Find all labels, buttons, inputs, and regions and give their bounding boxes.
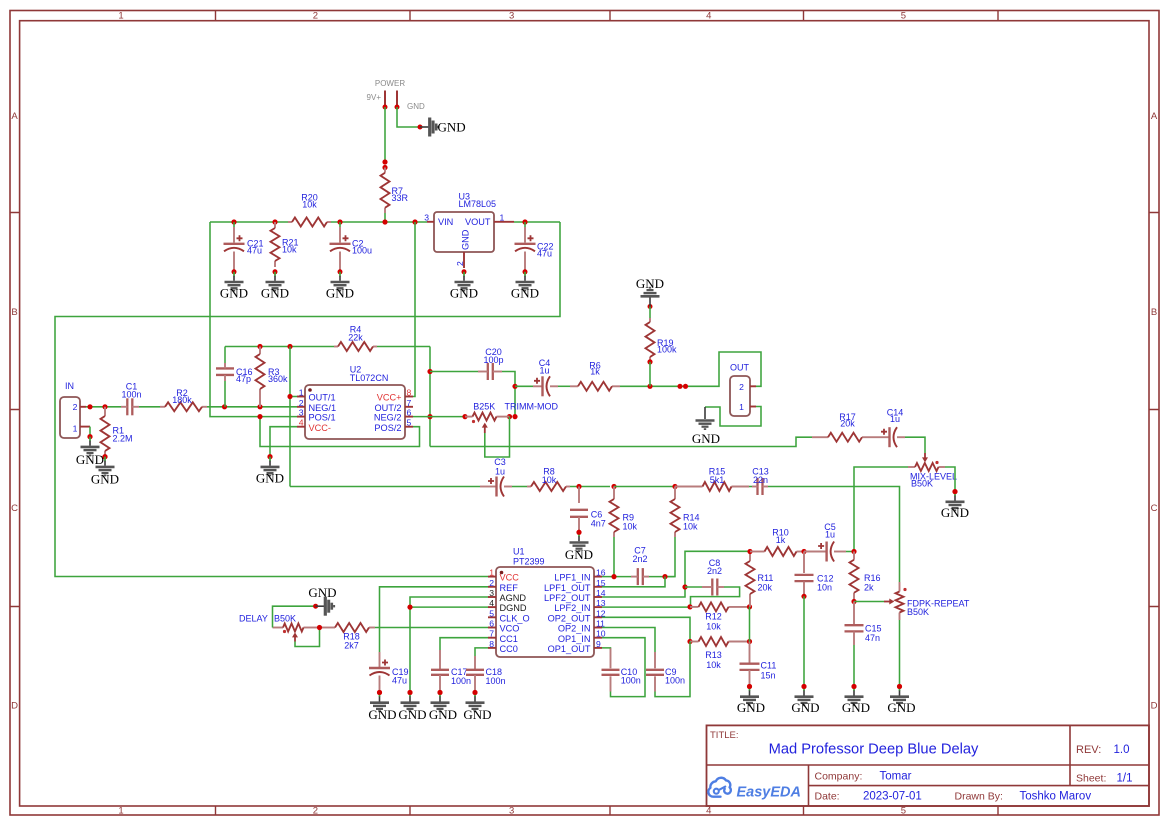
svg-text:2023-07-01: 2023-07-01 (863, 791, 922, 803)
wire LPF2_OUT run (602, 551, 750, 597)
svg-text:OP2_OUT: OP2_OUT (548, 613, 591, 623)
junction C12 gnd (801, 684, 806, 689)
U1 pin 13 (LPF2_IN) (594, 606, 602, 608)
wire C13 to FDPK top (768, 487, 900, 583)
svg-text:3: 3 (509, 806, 514, 817)
wire R19 top wire (649, 307, 651, 319)
ground GND under C21 (220, 269, 248, 300)
svg-text:5: 5 (489, 608, 494, 618)
svg-text:GND: GND (407, 102, 425, 111)
U1 pin 12 (OP2_OUT) (594, 616, 602, 618)
wire LPF2_IN row (602, 606, 690, 608)
svg-text:2: 2 (313, 806, 318, 817)
svg-text:9: 9 (596, 639, 601, 649)
junction C16 bottom node (222, 404, 227, 409)
svg-text:GND: GND (791, 700, 819, 715)
wire C3 to R8 (512, 486, 527, 488)
svg-text:GND: GND (326, 286, 354, 301)
junction C4 left node (512, 384, 517, 389)
svg-text:3: 3 (489, 588, 494, 598)
ground GND under U3 (450, 269, 478, 300)
wire Vref net (210, 222, 297, 417)
svg-text:POWER: POWER (375, 79, 405, 88)
resistor R8 (527, 467, 570, 492)
capacitor C15 (845, 624, 882, 644)
svg-text:7: 7 (489, 629, 494, 639)
svg-text:2.2M: 2.2M (113, 434, 133, 444)
svg-text:180k: 180k (172, 395, 192, 405)
wire CC0 run (475, 648, 488, 656)
svg-text:GND: GND (565, 547, 593, 562)
junction in b (102, 404, 107, 409)
wire POWER GND to ground (397, 107, 419, 127)
U3 pin 1 (494, 221, 514, 223)
svg-text:VOUT: VOUT (465, 217, 491, 227)
junction OUT/1 riser top (287, 344, 292, 349)
wire OP1_IN loop (602, 638, 645, 697)
svg-text:GND: GND (438, 120, 466, 135)
capacitor C21 (polarized) (224, 235, 264, 255)
junction C15 gnd (851, 684, 856, 689)
ground GND near DELAY (308, 585, 336, 616)
wire LPF1_OUT jog (602, 577, 665, 587)
svg-text:NEG/1: NEG/1 (309, 403, 337, 413)
capacitor C9 (646, 667, 685, 686)
svg-text:C15: C15 (865, 624, 882, 634)
svg-text:15n: 15n (761, 671, 776, 681)
wire R11-R12 to R13 link (749, 607, 751, 642)
wire R7 to power bus (384, 213, 386, 222)
svg-text:20k: 20k (840, 419, 855, 429)
U2 pin 5 (POS/2) (405, 426, 413, 428)
svg-text:Tomar: Tomar (880, 771, 912, 783)
U2 pin 1 (OUT/1) (297, 396, 305, 398)
wire C20 right / C4 node (502, 372, 515, 417)
capacitor C2 (polarized) (330, 235, 373, 255)
junction C22 top (522, 219, 527, 224)
svg-text:CC1: CC1 (500, 634, 518, 644)
wire VCC- to ground (270, 427, 297, 456)
svg-text:A: A (11, 111, 18, 122)
svg-text:Mad Professor Deep Blue Delay: Mad Professor Deep Blue Delay (769, 742, 979, 758)
wire R19 to output row (649, 362, 651, 386)
capacitor C19 (polarized) (369, 660, 409, 686)
junction B25K left (462, 414, 467, 419)
svg-text:22k: 22k (348, 333, 363, 343)
capacitor C22 (polarized) (515, 235, 554, 258)
junction R19 lower (647, 359, 652, 364)
junction R16 bottom node (851, 599, 856, 604)
svg-text:VCO: VCO (500, 624, 520, 634)
U1 pin 2 (REF) (488, 586, 496, 588)
junction MIX gnd (952, 489, 957, 494)
ground GND under R1 (91, 454, 119, 486)
svg-text:100n: 100n (121, 390, 141, 400)
wire R4 to NEG/2 riser (377, 346, 430, 348)
svg-text:22n: 22n (753, 475, 768, 485)
wire 9V+ down to R7 (384, 107, 386, 163)
junction bus R7 (382, 219, 387, 224)
U1 pin 6 (VCO) (488, 627, 496, 629)
capacitor C4 (polarized) (534, 358, 550, 396)
wire R2 to U2 NEG/1 (207, 406, 297, 408)
svg-text:47n: 47n (865, 633, 880, 643)
svg-text:C: C (11, 503, 18, 514)
junction B25K right node b (512, 414, 517, 419)
svg-text:TRIMM-MOD: TRIMM-MOD (505, 402, 559, 412)
junction R13 left node (687, 639, 692, 644)
svg-text:LPF2_IN: LPF2_IN (554, 603, 590, 613)
U1 pin 15 (LPF1_OUT) (594, 586, 602, 588)
junction AGND-DGND join (407, 605, 412, 610)
svg-text:1u: 1u (890, 414, 900, 424)
resistor R21 (271, 222, 299, 267)
svg-text:1u: 1u (495, 467, 505, 477)
wire input row IN to C1 (86, 406, 121, 408)
junction C8 left node (682, 584, 687, 589)
wire C8 right jog (691, 587, 740, 606)
svg-text:5: 5 (901, 806, 906, 817)
svg-text:10k: 10k (706, 660, 721, 670)
junction pin13 node (687, 604, 692, 609)
svg-text:OP1_IN: OP1_IN (558, 634, 591, 644)
wire C21 top lead (233, 222, 235, 227)
svg-text:GND: GND (636, 276, 664, 291)
capacitor C6 (570, 510, 606, 529)
U2 pin 6 (NEG/2) (405, 416, 413, 418)
svg-text:B: B (11, 307, 17, 318)
svg-text:6: 6 (489, 619, 494, 629)
junction C19 gnd (377, 690, 382, 695)
svg-text:OUT: OUT (730, 363, 750, 373)
svg-text:100k: 100k (657, 345, 677, 355)
wire feedback top row (225, 346, 334, 348)
ground GND under MIX (941, 492, 969, 520)
ground GND under C19 (368, 693, 396, 723)
svg-text:4: 4 (299, 418, 304, 428)
capacitor C18 (466, 667, 506, 686)
svg-text:2: 2 (739, 382, 744, 392)
svg-text:10k: 10k (706, 622, 721, 632)
resistor R7 (381, 168, 409, 214)
wire R16 to FDPK wiper (854, 601, 884, 603)
svg-text:33R: 33R (392, 193, 409, 203)
svg-text:1: 1 (73, 424, 78, 434)
svg-text:POS/1: POS/1 (309, 413, 336, 423)
junction C20 left node (427, 369, 432, 374)
junction C6 node (576, 484, 581, 489)
svg-text:GND: GND (511, 286, 539, 301)
wire DELAY left to ground (273, 606, 316, 627)
svg-text:100u: 100u (352, 246, 372, 256)
svg-text:100p: 100p (483, 355, 503, 365)
svg-text:47u: 47u (537, 249, 552, 259)
svg-text:10k: 10k (282, 245, 297, 255)
junction IN gnd (87, 434, 92, 439)
svg-text:OUT/2: OUT/2 (374, 403, 401, 413)
svg-text:2: 2 (73, 402, 78, 412)
junction OUT/1 pin (287, 394, 292, 399)
wire R9 to LPF1_IN (613, 537, 615, 577)
wire C20 left wire (430, 371, 478, 373)
svg-text:U1: U1 (513, 547, 525, 557)
svg-text:GND: GND (842, 700, 870, 715)
svg-text:1: 1 (739, 402, 744, 412)
svg-text:VCC: VCC (500, 573, 520, 583)
ground GND under C22 (511, 269, 539, 300)
junction C6 bottom (576, 530, 581, 535)
wire NEG/2 to B25K (413, 416, 465, 418)
U3 pin 2 (463, 252, 465, 268)
svg-text:GND: GND (261, 286, 289, 301)
wire VCO wire (375, 627, 488, 629)
svg-text:4: 4 (706, 806, 711, 817)
junction VCC- gnd (267, 454, 272, 459)
resistor R3 (256, 347, 289, 407)
svg-text:Company:: Company: (815, 771, 863, 783)
svg-text:10k: 10k (683, 522, 698, 532)
wire OP1_OUT link (602, 647, 611, 649)
wire FDPK bottom to ground (899, 620, 901, 686)
svg-text:PT2399: PT2399 (513, 557, 545, 567)
title block (707, 725, 1150, 806)
svg-text:2: 2 (489, 578, 494, 588)
svg-text:47u: 47u (392, 676, 407, 686)
svg-text:47p: 47p (236, 374, 251, 384)
wire C16 top lead wire (224, 347, 226, 364)
svg-text:7: 7 (407, 398, 412, 408)
ground GND under C15 (842, 687, 870, 716)
ground GND under U2 (256, 454, 284, 485)
svg-text:8: 8 (489, 639, 494, 649)
svg-text:R12: R12 (705, 612, 722, 622)
svg-text:R11: R11 (758, 573, 774, 583)
junction NEG/2 node (427, 414, 432, 419)
capacitor C11 (740, 661, 777, 681)
wire MIX right to ground (945, 467, 955, 491)
resistor R11 (746, 552, 774, 607)
junction C18 gnd (472, 690, 477, 695)
svg-text:GND: GND (308, 585, 336, 600)
potentiometer DELAY B50K (239, 614, 320, 642)
svg-text:1: 1 (489, 568, 494, 578)
junction C5 left node (801, 549, 806, 554)
U1 pin 11 (OP2_IN) (594, 627, 602, 629)
U2 pin 2 (NEG/1) (297, 406, 305, 408)
svg-text:LPF1_OUT: LPF1_OUT (544, 583, 591, 593)
wire OP2_IN link (602, 628, 655, 653)
svg-text:1u: 1u (825, 530, 835, 540)
U1 pin 4 (DGND) (488, 606, 496, 608)
ground GND under C2 (326, 269, 354, 300)
resistor R6 (570, 361, 620, 391)
capacitor C16 (216, 367, 253, 384)
svg-text:4: 4 (489, 598, 494, 608)
svg-text:C11: C11 (761, 661, 777, 671)
svg-text:3: 3 (509, 11, 514, 22)
svg-text:R13: R13 (705, 650, 722, 660)
svg-text:4: 4 (706, 11, 711, 22)
U1 pin 1 (VCC) (488, 576, 496, 578)
junction R1 bottom (102, 454, 107, 459)
wire REF to C19 (380, 587, 489, 652)
svg-text:100n: 100n (621, 676, 641, 686)
wire NEG/2 to R17 run (430, 437, 812, 446)
svg-text:LPF2_OUT: LPF2_OUT (544, 593, 591, 603)
wire OUT/1 pin link (290, 396, 297, 398)
svg-text:D: D (1151, 701, 1158, 712)
wire DELAY wiper loop (295, 628, 320, 647)
capacitor C17 (431, 667, 471, 686)
wire MIX left to C5 node (854, 467, 908, 552)
svg-text:5: 5 (407, 418, 412, 428)
svg-text:100n: 100n (486, 676, 506, 686)
svg-text:2n2: 2n2 (707, 566, 722, 576)
resistor R15 (675, 467, 749, 492)
svg-text:REV:: REV: (1076, 744, 1101, 756)
svg-text:3: 3 (424, 213, 429, 223)
capacitor C13 (752, 467, 769, 496)
resistor R13 (690, 637, 749, 670)
U1 pin 3 (AGND) (488, 596, 496, 598)
resistor R16 (850, 552, 881, 602)
wire OP2_OUT run (602, 617, 690, 641)
svg-text:B25K: B25K (473, 402, 495, 412)
resistor R10 (750, 528, 804, 557)
op-amp U2 TL072CN (297, 365, 413, 440)
junction pin16 end node (662, 574, 667, 579)
svg-text:REF: REF (500, 583, 519, 593)
svg-text:Toshko Marov: Toshko Marov (1020, 791, 1092, 803)
U1 pin 16 (LPF1_IN) (594, 576, 602, 578)
capacitor C10 (602, 667, 641, 686)
potentiometer MIX-LEVEL B50K (908, 453, 957, 489)
svg-text:2n2: 2n2 (632, 554, 647, 564)
junction 9V wire end (382, 159, 387, 164)
svg-text:5k1: 5k1 (710, 475, 725, 485)
svg-text:B50K: B50K (911, 479, 933, 489)
wire LPF1_IN row (602, 576, 631, 578)
capacitor C7 (632, 546, 647, 586)
svg-text:NEG/2: NEG/2 (374, 413, 402, 423)
capacitor C1 (121, 382, 141, 416)
svg-text:9V+: 9V+ (367, 93, 382, 102)
wire R9 to R14 node (614, 486, 675, 488)
wire C4 to R6 (558, 385, 570, 387)
potentiometer FDPK-REPEAT B50K (884, 582, 970, 620)
junction bus C2 (337, 219, 342, 224)
wire OUT1 to C3 (290, 486, 480, 488)
resistor R14 (671, 487, 700, 538)
wire C22 top lead (524, 222, 526, 227)
wire C15 to ground (853, 645, 855, 686)
svg-text:1u: 1u (539, 366, 549, 376)
resistor R9 (610, 487, 638, 538)
resistor R17 (812, 412, 878, 442)
capacitor C8 (707, 558, 722, 596)
EasyEDA logo (708, 778, 801, 801)
wire VCC+ to U2 pin8 (413, 222, 415, 397)
svg-text:GND: GND (692, 431, 720, 446)
svg-text:DELAY: DELAY (239, 614, 268, 624)
OUT pin 2 stub (750, 385, 756, 387)
ground GND under C11 (737, 687, 765, 716)
svg-text:10k: 10k (542, 475, 557, 485)
svg-text:EasyEDA: EasyEDA (737, 785, 801, 801)
svg-text:D: D (11, 701, 18, 712)
svg-text:VCC+: VCC+ (377, 393, 402, 403)
svg-text:IN: IN (65, 381, 74, 391)
junction in a (87, 404, 92, 409)
svg-text:2: 2 (455, 261, 465, 266)
wire B25K wiper loop (485, 417, 510, 457)
junction out row b (683, 384, 688, 389)
U1 pin 10 (OP1_IN) (594, 637, 602, 639)
svg-text:AGND: AGND (500, 593, 527, 603)
IN pin 1 stub (80, 426, 90, 428)
junction B25K right node a (507, 414, 512, 419)
IN pin 2 stub (80, 406, 86, 408)
junction Vref/POS1 branch (257, 414, 262, 419)
wire OUT pin1 to ground (705, 407, 761, 427)
junction R13 right node (747, 639, 752, 644)
svg-text:CLK_O: CLK_O (500, 613, 530, 623)
wire R6 to OUT jog (620, 352, 761, 386)
wire NEG/2 riser (429, 347, 431, 447)
svg-text:10k: 10k (623, 522, 638, 532)
svg-text:VIN: VIN (438, 217, 453, 227)
svg-text:TITLE:: TITLE: (710, 730, 739, 741)
resistor R19 (646, 318, 678, 361)
wire DGND run (410, 606, 488, 608)
svg-text:Date:: Date: (815, 791, 840, 803)
svg-text:GND: GND (463, 707, 491, 722)
U1 pin 8 (CC0) (488, 647, 496, 649)
connector IN (60, 381, 90, 438)
svg-text:8: 8 (407, 388, 412, 398)
svg-text:Drawn By:: Drawn By: (955, 791, 1003, 803)
ground GND under C6 (565, 532, 593, 562)
ground GND under IN (76, 434, 104, 467)
U1 pin 7 (CC1) (488, 637, 496, 639)
junction C12 bottom (801, 594, 806, 599)
junction R7 top (382, 165, 387, 170)
svg-text:2: 2 (299, 398, 304, 408)
wire OUT/1 net riser (289, 347, 291, 487)
capacitor C14 (polarized) (881, 408, 903, 448)
wire C16 bottom (224, 381, 226, 407)
wire R8 to R9 node (570, 486, 610, 488)
connector OUT (730, 363, 756, 417)
svg-text:1k: 1k (590, 367, 600, 377)
wire R14 to pin16 row (665, 537, 675, 577)
junction AGND gnd (407, 690, 412, 695)
svg-text:GND: GND (256, 471, 284, 486)
svg-text:2k: 2k (864, 583, 874, 593)
wire power bus right of R20 (331, 221, 427, 223)
wire C2 top lead (339, 222, 341, 227)
svg-text:GND: GND (461, 229, 471, 250)
junction R12 right node (747, 604, 752, 609)
svg-text:5: 5 (901, 11, 906, 22)
svg-text:4n7: 4n7 (591, 519, 606, 529)
svg-text:VCC-: VCC- (309, 423, 331, 433)
resistor R4 (334, 325, 377, 352)
capacitor C12 (795, 574, 834, 593)
svg-text:C: C (1151, 503, 1158, 514)
U1 pin 5 (CLK_O) (488, 616, 496, 618)
wire 5V rail (55, 222, 560, 577)
